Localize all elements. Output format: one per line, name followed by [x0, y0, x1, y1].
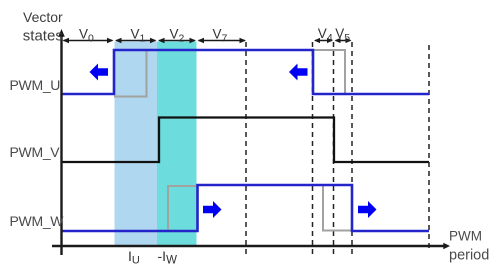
- dimension arrow V2: [158, 38, 196, 43]
- svg-text:PWM_W: PWM_W: [10, 213, 65, 229]
- blue arrow right PWM_W region 2: [358, 201, 377, 218]
- gray trace PWM_W left: [168, 186, 198, 230]
- svg-text:period: period: [449, 248, 489, 264]
- svg-text:Vector: Vector: [23, 9, 63, 25]
- waveform PWM_W (blue): [62, 185, 429, 231]
- gray trace PWM_U right: [313, 50, 345, 94]
- svg-text:-IW: -IW: [158, 248, 178, 267]
- dimension arrow V4: [314, 38, 333, 43]
- horizontal axis arrowhead: [443, 243, 450, 250]
- shaded band V1 (light blue): [115, 42, 158, 246]
- waveform PWM_V (black): [62, 118, 429, 163]
- svg-text:PWM: PWM: [449, 229, 482, 244]
- dashed line x=352: [351, 42, 353, 254]
- dimension arrow V1: [115, 38, 157, 43]
- dashed line x=246: [245, 42, 247, 254]
- svg-text:IU: IU: [128, 248, 140, 267]
- svg-text:V7: V7: [213, 27, 228, 45]
- dashed line x=312.5: [312, 42, 314, 254]
- svg-text:states: states: [23, 27, 63, 44]
- blue arrow left PWM_U region 1: [90, 64, 109, 81]
- svg-text:PWM_V: PWM_V: [10, 144, 61, 160]
- blue arrow right PWM_W region 1: [203, 201, 222, 218]
- blue arrow left PWM_U region 2: [289, 64, 308, 81]
- dimension arrow V0: [63, 38, 114, 43]
- svg-text:PWM_U: PWM_U: [10, 77, 61, 93]
- horizontal axis: [52, 245, 445, 247]
- vertical axis arrowhead: [58, 29, 65, 37]
- gray trace PWM_W right: [323, 186, 352, 231]
- dimension arrow V7: [198, 38, 247, 43]
- gray trace PWM_U left: [114, 50, 147, 97]
- shaded band V2 (teal): [157, 42, 197, 246]
- dimension arrow V5: [335, 38, 352, 43]
- svg-text:V0: V0: [79, 27, 94, 45]
- waveform PWM_U (blue): [62, 50, 429, 94]
- vertical axis: [60, 33, 62, 255]
- svg-text:V4: V4: [318, 26, 333, 44]
- dashed line x=333.5: [333, 42, 335, 254]
- dashed line x=429: [428, 45, 430, 252]
